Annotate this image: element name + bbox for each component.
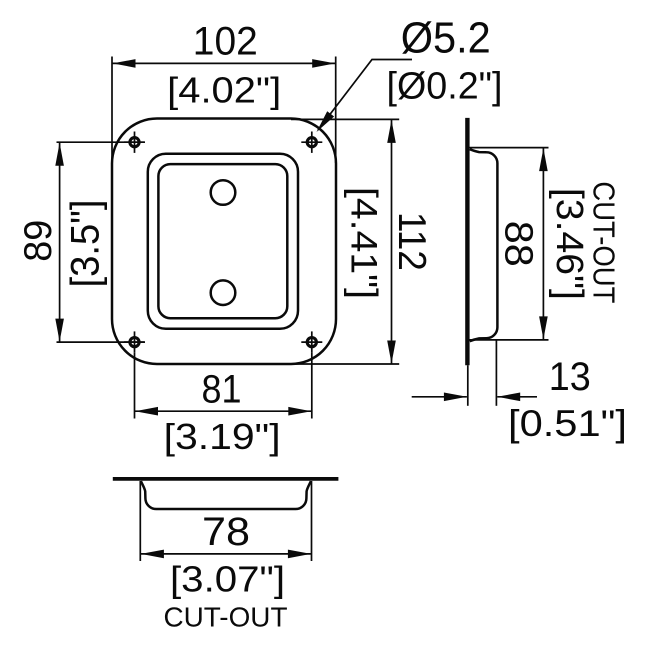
dim 89 extension line top xyxy=(57,141,145,143)
dim 81 arrow right xyxy=(288,407,311,416)
dim 102 arrow left xyxy=(113,59,136,68)
dim 13 arrow right (pointing left) xyxy=(497,393,520,402)
svg-text:13: 13 xyxy=(549,355,591,399)
dim 81 dimension line xyxy=(135,410,311,412)
svg-text:81: 81 xyxy=(202,368,242,412)
svg-text:[3.19"]: [3.19"] xyxy=(164,416,281,457)
svg-text:102: 102 xyxy=(193,20,258,64)
svg-text:[Ø0.2"]: [Ø0.2"] xyxy=(387,65,503,107)
dim 13 dimension line right tail xyxy=(497,396,537,398)
leader line for hole diameter xyxy=(318,60,412,131)
svg-text:112: 112 xyxy=(390,212,433,271)
dim 78 arrow right xyxy=(288,550,311,559)
dim 88 dimension line xyxy=(542,148,544,339)
dim 81 arrow left xyxy=(135,407,158,416)
dim 112 extension line bottom xyxy=(291,363,399,365)
dim 89 dimension line xyxy=(59,142,61,342)
leader arrow xyxy=(317,111,335,132)
dim 102 extension line right xyxy=(335,57,337,164)
svg-text:CUT-OUT: CUT-OUT xyxy=(164,601,288,632)
svg-text:89: 89 xyxy=(17,220,60,262)
dim 102 arrow right xyxy=(312,59,335,68)
dim 78 extension line right xyxy=(311,481,313,561)
bottom view plate edge (thick horizontal) xyxy=(113,477,339,481)
dim 78 extension line left xyxy=(139,481,141,561)
dim 102 dimension line xyxy=(113,62,336,64)
dim 13 extension line right (dish back continued) xyxy=(495,341,497,406)
dim 89 extension line bottom xyxy=(57,341,145,343)
dim 112 arrow bottom xyxy=(387,341,396,364)
dim 88 extension line bottom xyxy=(467,339,549,341)
svg-text:[3.46"]: [3.46"] xyxy=(548,188,590,300)
dim 13 extension line left (plate line continued) xyxy=(467,365,469,406)
svg-text:[4.02"]: [4.02"] xyxy=(167,69,281,110)
dim 78 dimension line xyxy=(141,553,311,555)
svg-text:[0.51"]: [0.51"] xyxy=(508,403,627,444)
hole H1 (top, in recess floor) xyxy=(211,180,236,205)
screw hole TL xyxy=(124,132,145,153)
svg-text:[3.07"]: [3.07"] xyxy=(170,558,285,599)
screw hole TR xyxy=(301,132,322,153)
dim 13 arrow left (pointing right) xyxy=(444,393,467,402)
dim 88 arrow top xyxy=(539,148,548,171)
svg-text:CUT-OUT: CUT-OUT xyxy=(587,181,622,303)
dim 88 extension line top xyxy=(467,147,549,149)
dim 13 dimension line left tail xyxy=(412,396,467,398)
svg-text:Ø5.2: Ø5.2 xyxy=(401,14,491,63)
svg-text:88: 88 xyxy=(497,221,541,267)
bottom view dish profile xyxy=(141,481,311,509)
dim 89 arrow top xyxy=(55,143,64,166)
side view plate edge (thick vertical) xyxy=(465,118,469,365)
recess floor (front view inner rounded rect) xyxy=(158,164,287,318)
svg-text:[3.5"]: [3.5"] xyxy=(64,200,108,288)
dim 102 extension line left xyxy=(111,57,113,164)
dim 112 dimension line xyxy=(391,120,393,364)
screw hole BR xyxy=(301,331,322,352)
svg-text:78: 78 xyxy=(202,510,250,554)
dim 81 extension line left (from BL screw hole down) xyxy=(134,353,136,419)
hole H2 (bottom, in recess floor) xyxy=(211,280,236,305)
dim 89 arrow bottom xyxy=(55,319,64,342)
dim 112 arrow top xyxy=(387,120,396,143)
dim 88 arrow bottom xyxy=(539,316,548,339)
dim 81 extension line right (from BR screw hole down) xyxy=(311,353,313,419)
svg-text:[4.41"]: [4.41"] xyxy=(344,187,385,299)
side view dish profile xyxy=(470,149,498,341)
dim 112 extension line top xyxy=(291,118,399,120)
plate outline (front view) xyxy=(112,119,336,365)
dim 78 arrow left xyxy=(141,550,164,559)
screw hole BL xyxy=(124,331,145,352)
recess edge (front view outer rounded rect) xyxy=(148,154,298,329)
